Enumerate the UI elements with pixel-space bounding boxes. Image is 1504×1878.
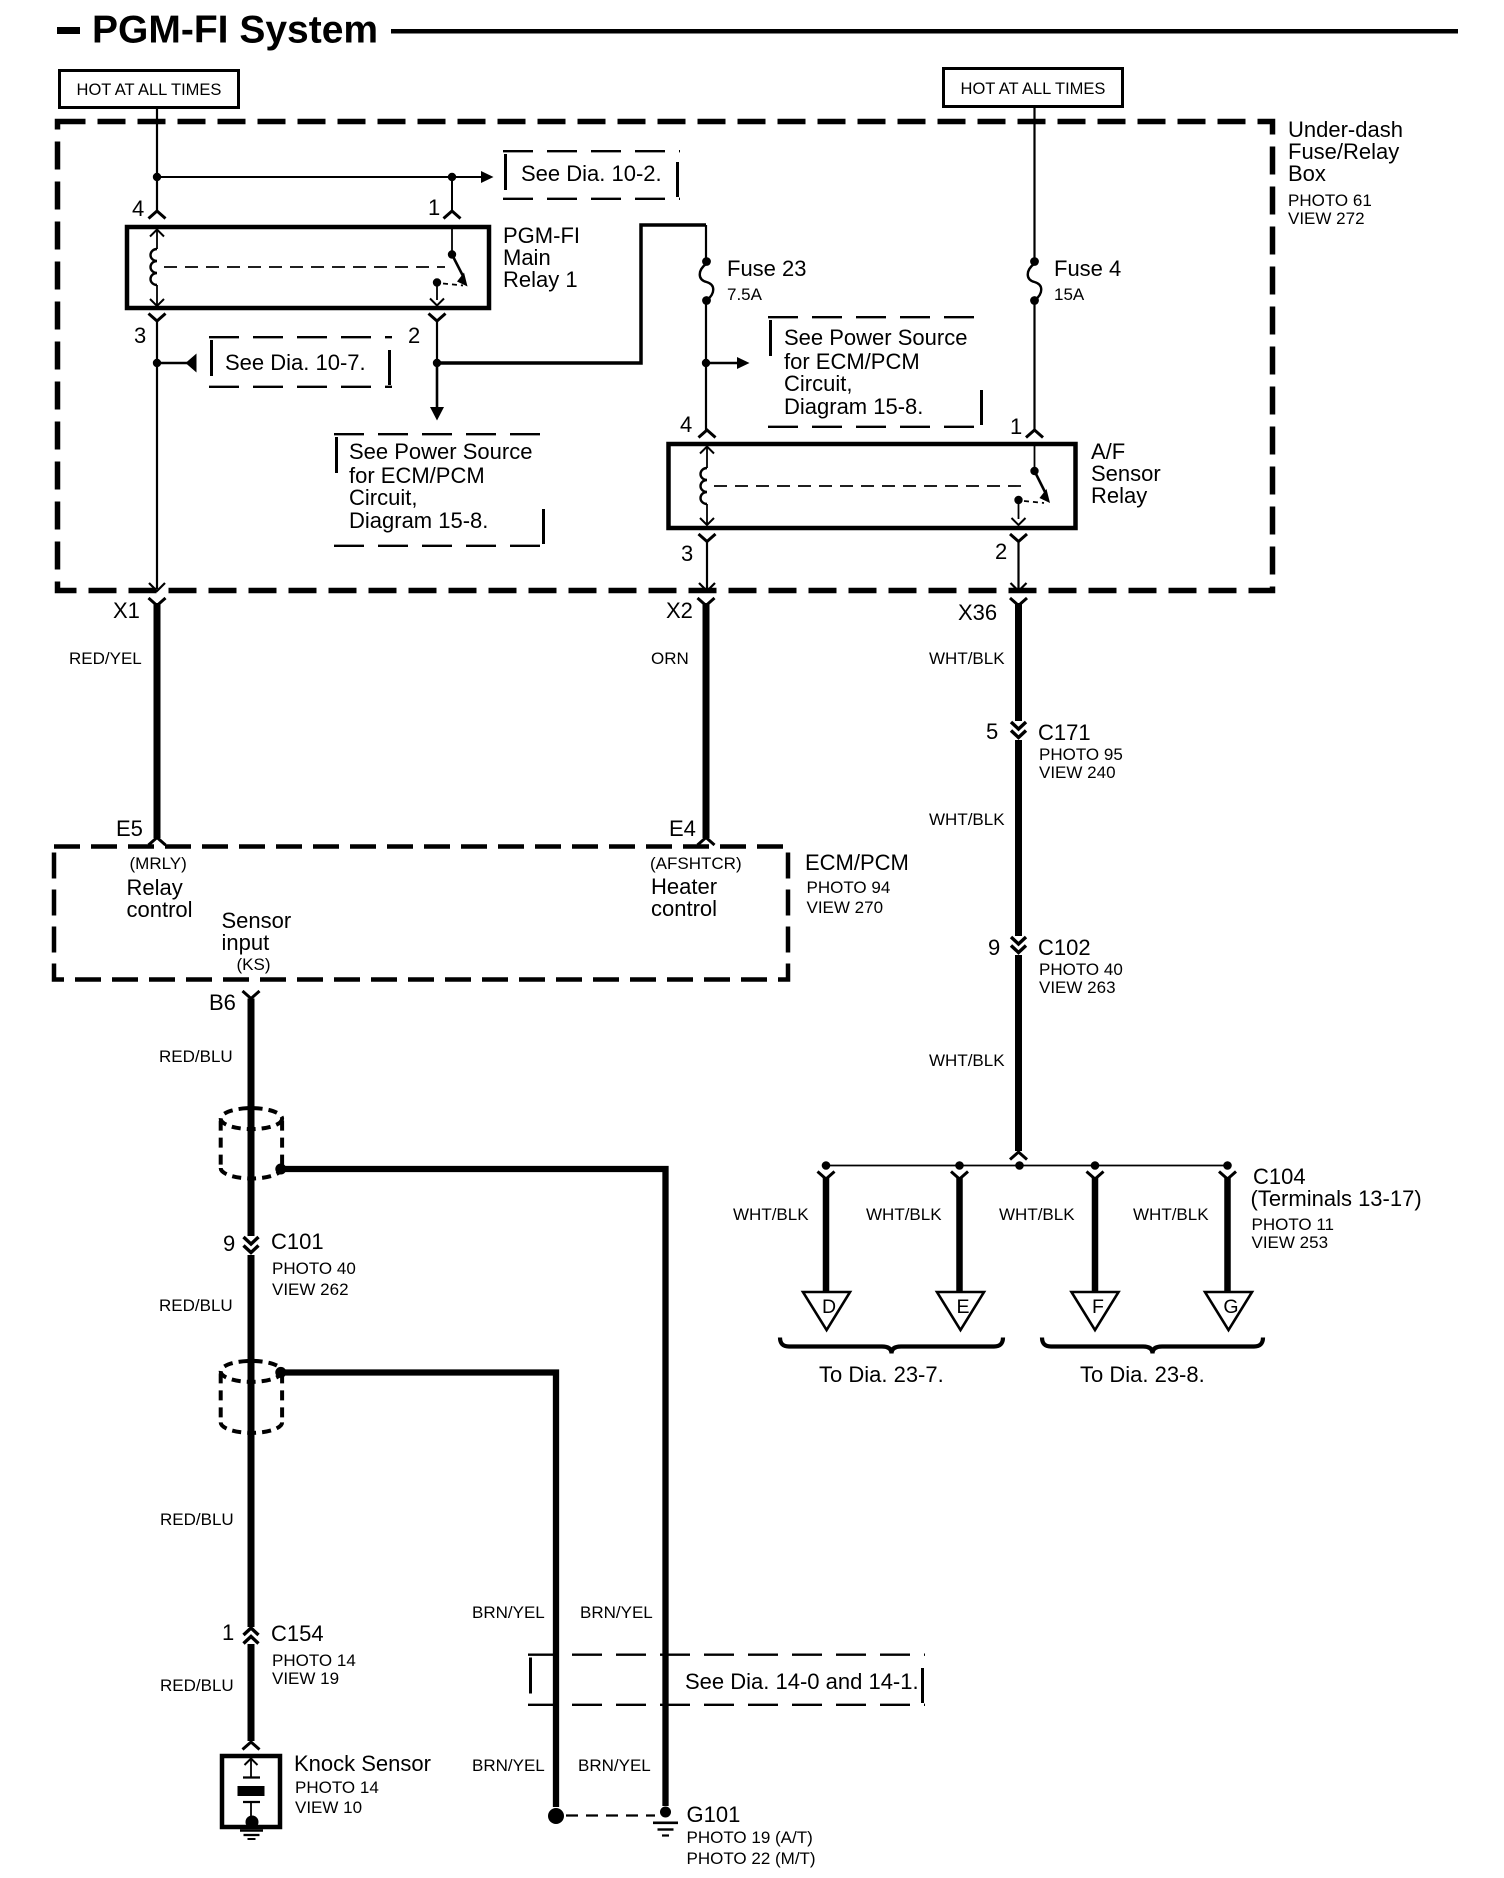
wire: to See Dia. 10-2. [157, 176, 482, 178]
wire: pin 2 down to junction [436, 321, 438, 363]
G101 splice dot (left leg end) [548, 1808, 564, 1824]
junction on fuse 23 wire [702, 359, 710, 367]
svg-text:VIEW 10: VIEW 10 [295, 1798, 362, 1817]
A/F pin 2 terminal [1010, 534, 1027, 542]
svg-text:X1: X1 [113, 598, 140, 623]
svg-text:Fuse 23: Fuse 23 [727, 256, 807, 281]
X36 connector [1010, 598, 1027, 606]
svg-text:PHOTO 95: PHOTO 95 [1039, 745, 1123, 764]
svg-text:VIEW 270: VIEW 270 [807, 898, 884, 917]
svg-text:B6: B6 [209, 990, 236, 1015]
svg-text:input: input [222, 930, 270, 955]
HOT AT ALL TIMES box (left) [60, 71, 239, 108]
svg-text:BRN/YEL: BRN/YEL [472, 1603, 545, 1622]
svg-text:PGM-FI System: PGM-FI System [92, 9, 378, 52]
relay U1 box: PGM-FI Main Relay 1 [127, 227, 489, 308]
svg-text:HOT AT ALL TIMES: HOT AT ALL TIMES [77, 81, 222, 99]
X2 connector [698, 598, 715, 606]
X36 wire end terminal [1010, 1152, 1027, 1160]
relay switch (pins 1-2) [451, 229, 453, 252]
svg-text:(KS): (KS) [237, 955, 271, 974]
svg-text:X2: X2 [666, 598, 693, 623]
svg-text:See Dia. 10-7.: See Dia. 10-7. [225, 350, 366, 375]
svg-text:WHT/BLK: WHT/BLK [929, 649, 1005, 668]
svg-text:To Dia. 23-7.: To Dia. 23-7. [819, 1362, 944, 1387]
See Dia. 14-0 and 14-1. reference box [528, 1653, 925, 1655]
coil-to-switch dashed link [164, 266, 445, 268]
svg-text:Circuit,: Circuit, [349, 485, 417, 510]
svg-text:15A: 15A [1054, 285, 1085, 304]
brace To Dia. 23-8. [1042, 1338, 1263, 1354]
wire X2 to E4 [703, 603, 710, 838]
svg-text:1: 1 [1010, 414, 1022, 439]
svg-text:WHT/BLK: WHT/BLK [1133, 1205, 1209, 1224]
svg-text:2: 2 [408, 323, 420, 348]
svg-text:See Power Source: See Power Source [349, 439, 532, 464]
junction dots on bus [822, 1161, 831, 1170]
brace To Dia. 23-7. [780, 1338, 1003, 1354]
svg-text:RED/BLU: RED/BLU [159, 1296, 233, 1315]
shield tap wire to G101 (right leg) [285, 1169, 666, 1806]
See Power Source box (left) [334, 433, 546, 435]
svg-text:E: E [956, 1296, 969, 1318]
svg-text:BRN/YEL: BRN/YEL [580, 1603, 653, 1622]
svg-text:3: 3 [681, 541, 693, 566]
wire: pin 3 to X1 [156, 321, 158, 589]
svg-text:Relay: Relay [1091, 483, 1147, 508]
svg-text:PHOTO 11: PHOTO 11 [1252, 1215, 1335, 1234]
connector C102 pin 9 [1011, 937, 1026, 944]
shield tap wire to G101 (left leg) [285, 1373, 556, 1808]
svg-text:E5: E5 [116, 816, 143, 841]
svg-text:BRN/YEL: BRN/YEL [472, 1756, 545, 1775]
svg-text:PHOTO 40: PHOTO 40 [272, 1259, 356, 1278]
svg-text:RED/BLU: RED/BLU [160, 1676, 234, 1695]
svg-text:3: 3 [134, 323, 146, 348]
svg-text:1: 1 [222, 1620, 234, 1645]
svg-text:4: 4 [680, 412, 692, 437]
pin 2 terminal [429, 314, 446, 322]
svg-text:9: 9 [988, 935, 1000, 960]
svg-text:RED/BLU: RED/BLU [160, 1510, 234, 1529]
svg-text:F: F [1092, 1296, 1104, 1318]
svg-text:WHT/BLK: WHT/BLK [999, 1205, 1075, 1224]
wire WHT/BLK [1015, 740, 1022, 936]
wire above Fuse 23 [705, 225, 707, 258]
svg-text:VIEW 19: VIEW 19 [272, 1669, 339, 1688]
branch E [951, 1172, 968, 1180]
svg-text:2: 2 [995, 539, 1007, 564]
svg-text:PHOTO 22 (M/T): PHOTO 22 (M/T) [687, 1849, 816, 1868]
Under-dash Fuse/Relay Box (dashed enclosure) [58, 122, 1273, 591]
junction on pin3 wire [153, 359, 161, 367]
svg-text:ORN: ORN [651, 649, 689, 668]
svg-text:C102: C102 [1038, 935, 1091, 960]
wire: junction down to relay pin 1 [451, 177, 453, 212]
svg-text:D: D [822, 1296, 836, 1318]
connector C171 pin 5 [1011, 722, 1026, 729]
title rule [391, 29, 1458, 34]
svg-text:C154: C154 [271, 1621, 324, 1646]
ECM/PCM dashed box [54, 847, 788, 980]
svg-text:C171: C171 [1038, 720, 1091, 745]
A/F relay switch [1034, 446, 1036, 468]
svg-text:RED/YEL: RED/YEL [69, 649, 142, 668]
svg-text:VIEW 253: VIEW 253 [1252, 1233, 1329, 1252]
svg-text:ECM/PCM: ECM/PCM [805, 850, 909, 875]
connector C101 pin 9 [244, 1237, 259, 1244]
shielded cable symbol 2 [221, 1361, 282, 1382]
wire pin2 to X36 [1017, 542, 1019, 590]
svg-text:VIEW 262: VIEW 262 [272, 1280, 349, 1299]
svg-text:G101: G101 [687, 1802, 741, 1827]
wire WHT/BLK [1015, 955, 1022, 1151]
node junction above pin 1 [448, 173, 456, 181]
svg-text:(MRLY): (MRLY) [130, 854, 187, 873]
svg-text:PHOTO 19 (A/T): PHOTO 19 (A/T) [687, 1828, 813, 1847]
terminal B6 [243, 991, 260, 999]
svg-text:See Dia. 14-0 and 14-1.: See Dia. 14-0 and 14-1. [685, 1669, 919, 1694]
wire RED/BLU from B6 [248, 999, 255, 1237]
knock sensor internal ground [240, 1829, 263, 1832]
See Dia. 10-2. reference box [503, 150, 680, 152]
svg-text:See Power Source: See Power Source [784, 325, 967, 350]
svg-text:control: control [651, 896, 717, 921]
relay U2 box: A/F Sensor Relay [669, 444, 1076, 528]
stub to See Dia. 10-7. [157, 362, 188, 365]
node junction on pin4 wire [153, 173, 161, 181]
svg-text:9: 9 [223, 1231, 235, 1256]
relay coil (pins 4-3) [156, 229, 158, 249]
wire pin3 to X2 [706, 542, 708, 590]
svg-text:C101: C101 [271, 1229, 324, 1254]
fuse F4 (15A) [1030, 257, 1039, 266]
svg-text:BRN/YEL: BRN/YEL [578, 1756, 651, 1775]
A/F relay pin 1 terminal [1026, 430, 1043, 438]
svg-text:VIEW 240: VIEW 240 [1039, 763, 1116, 782]
pin 3 terminal [149, 314, 166, 322]
svg-text:WHT/BLK: WHT/BLK [929, 810, 1005, 829]
svg-text:WHT/BLK: WHT/BLK [929, 1051, 1005, 1070]
svg-text:PHOTO 40: PHOTO 40 [1039, 960, 1123, 979]
svg-text:Knock Sensor: Knock Sensor [294, 1751, 431, 1776]
svg-text:Diagram 15-8.: Diagram 15-8. [784, 394, 923, 419]
knock sensor element [250, 1758, 252, 1777]
knock sensor box [222, 1756, 280, 1827]
A/F relay pin 4 terminal [699, 430, 716, 438]
branch G [1219, 1172, 1236, 1180]
arrow into See Power Source (right) [706, 362, 738, 365]
svg-text:(Terminals 13-17): (Terminals 13-17) [1251, 1186, 1422, 1211]
dashed link to G101 [566, 1814, 655, 1816]
svg-text:Circuit,: Circuit, [784, 371, 852, 396]
wire from HOT (right) [1033, 106, 1035, 258]
svg-text:WHT/BLK: WHT/BLK [733, 1205, 809, 1224]
svg-text:PHOTO 61: PHOTO 61 [1288, 191, 1372, 210]
arrow into See Dia. 10-2. [481, 171, 494, 183]
svg-text:RED/BLU: RED/BLU [159, 1047, 233, 1066]
connector C154 pin 1 [244, 1628, 259, 1635]
svg-text:Diagram 15-8.: Diagram 15-8. [349, 508, 488, 533]
pin 1 terminal [444, 211, 461, 219]
X1 male terminal arrow at border [149, 583, 165, 591]
wire: down arrow to See Power Source (left) [436, 363, 439, 408]
svg-text:Box: Box [1288, 161, 1326, 186]
wire RED/BLU [248, 1644, 255, 1741]
fuse F23 (7.5A) [702, 257, 711, 266]
coil-to-switch dashed link [714, 485, 1028, 487]
svg-text:VIEW 263: VIEW 263 [1039, 978, 1116, 997]
svg-text:E4: E4 [669, 816, 696, 841]
PGM-FI Main Relay 1 pin 4 terminal [149, 211, 166, 219]
svg-text:X36: X36 [958, 600, 997, 625]
svg-text:Fuse 4: Fuse 4 [1054, 256, 1121, 281]
wire: HOT (left) to relay pin 4 [156, 107, 158, 212]
See Dia. 10-7. reference box [209, 336, 392, 338]
svg-text:WHT/BLK: WHT/BLK [866, 1205, 942, 1224]
svg-text:(AFSHTCR): (AFSHTCR) [650, 854, 742, 873]
svg-text:5: 5 [986, 719, 998, 744]
wire X1 to E5 [154, 603, 161, 838]
svg-text:PHOTO 94: PHOTO 94 [807, 878, 891, 897]
svg-text:PHOTO 14: PHOTO 14 [295, 1778, 379, 1797]
ground G101 [660, 1807, 671, 1818]
A/F pin 3 terminal [699, 534, 716, 542]
svg-text:HOT AT ALL TIMES: HOT AT ALL TIMES [961, 80, 1106, 98]
title dash [57, 27, 80, 34]
svg-text:Relay 1: Relay 1 [503, 267, 578, 292]
shielded cable symbol 1 [221, 1108, 282, 1129]
svg-text:To Dia. 23-8.: To Dia. 23-8. [1080, 1362, 1205, 1387]
X1 connector [149, 598, 166, 606]
branch bus line [826, 1165, 1228, 1167]
svg-text:control: control [127, 897, 193, 922]
svg-text:7.5A: 7.5A [727, 285, 763, 304]
knock sensor terminal [243, 1742, 260, 1750]
wire RED/BLU [248, 1255, 255, 1627]
HOT AT ALL TIMES box (right) [944, 69, 1123, 107]
svg-text:G: G [1223, 1296, 1238, 1318]
svg-text:4: 4 [132, 196, 144, 221]
svg-text:1: 1 [428, 195, 440, 220]
svg-text:PHOTO 14: PHOTO 14 [272, 1651, 356, 1670]
branch D [818, 1172, 835, 1180]
wire X36 down [1015, 603, 1022, 721]
svg-text:See Dia. 10-2.: See Dia. 10-2. [521, 161, 662, 186]
wire: pin2 junction over to Fuse 23 feed [437, 225, 706, 363]
A/F relay coil [706, 446, 708, 468]
See Power Source box (right) [768, 316, 984, 318]
branch F [1087, 1172, 1104, 1180]
svg-text:VIEW 272: VIEW 272 [1288, 209, 1365, 228]
